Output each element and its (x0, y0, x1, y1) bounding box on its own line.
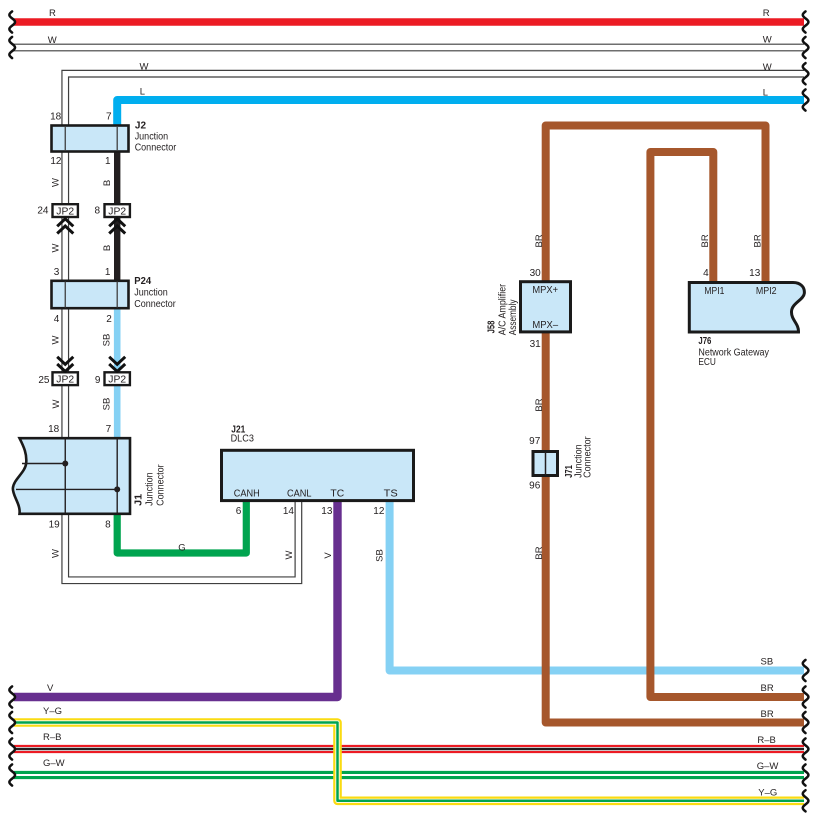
break symbol right of wire R (803, 11, 809, 32)
svg-text:W: W (48, 35, 57, 46)
junction connector J1 (torn left edge) (13, 438, 130, 514)
svg-text:18: 18 (50, 111, 62, 122)
break symbol right of wire BR (lower) (803, 712, 809, 733)
svg-text:R: R (49, 8, 56, 19)
svg-text:B: B (102, 245, 113, 251)
wire BR J76 MPI1 pin 4 to right edge (650, 152, 804, 697)
svg-text:W: W (763, 34, 772, 45)
svg-text:R–B: R–B (757, 735, 775, 746)
svg-text:J1: J1 (134, 493, 145, 505)
svg-text:Junction: Junction (135, 132, 169, 143)
svg-text:31: 31 (530, 339, 542, 350)
svg-text:BR: BR (534, 398, 545, 411)
svg-text:97: 97 (529, 436, 541, 447)
svg-text:JP2: JP2 (56, 206, 74, 217)
svg-text:W: W (51, 399, 62, 408)
wire R-B (red with black stripe) (14, 745, 804, 753)
svg-text:W: W (51, 335, 62, 344)
junction connector J2 (52, 126, 129, 152)
chevron arrows above JP2 25 (pointing down) (57, 357, 73, 372)
svg-text:30: 30 (530, 268, 542, 279)
svg-text:SB: SB (102, 334, 113, 347)
wire W net J2 pin18 to DLC3 CANL (outer line) (62, 70, 804, 583)
svg-text:19: 19 (49, 520, 61, 531)
svg-text:P24: P24 (134, 276, 151, 287)
chevron arrows above JP2 9 (pointing down) (109, 357, 125, 372)
break symbol right of wire L (803, 89, 809, 110)
svg-text:2: 2 (106, 314, 112, 325)
svg-text:J2: J2 (135, 121, 147, 132)
connector JP2 (pin 24) (53, 204, 78, 217)
svg-text:TS: TS (384, 488, 398, 499)
svg-text:12: 12 (50, 156, 62, 167)
svg-text:SB: SB (374, 549, 385, 562)
break symbol right of wire BR (upper) (803, 686, 809, 707)
svg-text:1: 1 (105, 267, 111, 278)
svg-text:B: B (102, 180, 113, 186)
svg-text:J58: J58 (486, 320, 497, 333)
svg-text:96: 96 (529, 481, 541, 492)
wire W (top horizontal, lower line) (14, 50, 805, 52)
svg-text:CANH: CANH (234, 488, 260, 499)
svg-text:MPI2: MPI2 (756, 286, 777, 297)
svg-text:R: R (763, 8, 770, 19)
wire R (red, top) (14, 18, 804, 26)
wire W (top horizontal, upper line) (14, 43, 805, 45)
wire SB DLC3 TS to right edge (390, 502, 804, 671)
svg-text:J76: J76 (698, 336, 711, 347)
break symbol left of wire G-W (9, 764, 15, 785)
svg-text:Junction: Junction (145, 472, 156, 506)
connector JP2 (pin 9) (105, 372, 130, 385)
wire G-W (green with white stripe) (14, 771, 804, 779)
break symbol left of wire Y-G (9, 712, 15, 733)
svg-text:7: 7 (106, 111, 112, 122)
svg-text:7: 7 (106, 424, 112, 435)
wire G (green) J1 pin 8 to DLC3 CANH (117, 502, 246, 553)
connector J21 DLC3 (222, 450, 414, 500)
svg-text:ECU: ECU (698, 357, 716, 368)
wire BR J58 MPX+ pin 30 to J76 MPI2 pin 13 (546, 126, 766, 282)
svg-text:BR: BR (753, 234, 764, 247)
svg-text:R–B: R–B (43, 732, 61, 743)
chevron arrows below JP2 8 (pointing up) (109, 219, 125, 234)
svg-text:25: 25 (38, 375, 50, 386)
svg-text:Connector: Connector (155, 464, 166, 506)
svg-text:6: 6 (236, 506, 242, 517)
svg-text:W: W (51, 243, 62, 252)
svg-text:V: V (323, 552, 334, 559)
svg-text:4: 4 (54, 314, 60, 325)
break symbol right of wire R-B (803, 738, 809, 759)
svg-text:12: 12 (373, 506, 385, 517)
svg-text:G–W: G–W (43, 758, 65, 769)
svg-text:W: W (763, 62, 772, 73)
svg-text:L: L (140, 87, 145, 98)
svg-text:1: 1 (105, 156, 111, 167)
svg-text:W: W (140, 62, 149, 73)
chevron arrows below JP2 24 (pointing up) (57, 219, 73, 234)
svg-text:Connector: Connector (134, 299, 176, 310)
break symbol right of wire G-W (803, 764, 809, 785)
svg-text:MPI1: MPI1 (704, 286, 724, 297)
svg-text:JP2: JP2 (108, 374, 126, 385)
svg-text:13: 13 (321, 506, 333, 517)
svg-text:Connector: Connector (135, 143, 177, 154)
wire SB P24 pin 2 to J1 pin 7 (114, 308, 121, 438)
svg-text:G–W: G–W (757, 761, 779, 772)
svg-text:24: 24 (37, 206, 49, 217)
wire L (blue) to J2 pin 7 (117, 100, 804, 126)
svg-text:DLC3: DLC3 (231, 434, 255, 445)
svg-text:BR: BR (761, 683, 774, 694)
svg-text:4: 4 (703, 268, 709, 279)
svg-text:MPX+: MPX+ (532, 285, 558, 296)
svg-text:BR: BR (534, 234, 545, 247)
junction connector P24 (52, 281, 129, 308)
break symbol left of wire V (9, 686, 15, 707)
break symbol left of wire R (9, 11, 15, 32)
wire W net J2 pin18 to DLC3 CANL (inner line) (69, 77, 804, 577)
svg-text:Junction: Junction (134, 288, 168, 299)
break symbol left of wire W (9, 37, 15, 58)
svg-text:Assembly: Assembly (508, 300, 519, 336)
svg-text:W: W (284, 550, 295, 559)
svg-text:18: 18 (48, 424, 60, 435)
network gateway ECU J76 (torn right edge) (689, 283, 804, 333)
wire B (black) J2 pin 1 to P24 pin 1 (114, 151, 120, 281)
wire BR J58 MPX- pin 31 through J71 to right edge (546, 333, 804, 723)
svg-text:8: 8 (105, 520, 111, 531)
junction connector J71 (533, 452, 558, 476)
svg-text:G: G (178, 542, 185, 553)
svg-text:13: 13 (749, 268, 761, 279)
break symbol right of wire SB (803, 660, 809, 681)
svg-text:Connector: Connector (583, 436, 594, 478)
svg-text:JP2: JP2 (108, 206, 126, 217)
svg-text:CANL: CANL (287, 488, 312, 499)
svg-text:Y–G: Y–G (43, 706, 62, 717)
svg-text:L: L (763, 88, 768, 99)
connector JP2 (pin 8) (105, 204, 130, 217)
svg-text:SB: SB (102, 398, 113, 411)
break symbol right of wire W (upper) (803, 37, 809, 58)
svg-text:W: W (50, 549, 61, 558)
svg-text:Y–G: Y–G (758, 788, 777, 799)
wire V (violet) DLC3 TC to left edge (14, 502, 338, 697)
svg-text:14: 14 (283, 506, 295, 517)
svg-text:BR: BR (700, 234, 711, 247)
svg-text:A/C Amplifier: A/C Amplifier (497, 283, 508, 335)
svg-text:MPX–: MPX– (532, 320, 558, 331)
svg-text:8: 8 (94, 206, 100, 217)
connector JP2 (pin 25) (53, 372, 78, 385)
svg-text:TC: TC (330, 488, 344, 499)
svg-text:BR: BR (534, 546, 545, 559)
break symbol right of wire Y-G (803, 790, 809, 811)
svg-text:9: 9 (95, 375, 101, 386)
break symbol right of wire W (lower) (803, 63, 809, 84)
break symbol left of wire R-B (9, 738, 15, 759)
A/C amplifier J58 (521, 282, 571, 332)
wire Y-G (yellow with green stripe) (14, 723, 804, 801)
svg-text:JP2: JP2 (56, 374, 74, 385)
svg-text:V: V (47, 683, 54, 694)
svg-text:BR: BR (761, 709, 774, 720)
svg-text:SB: SB (761, 657, 774, 668)
svg-text:W: W (51, 178, 62, 187)
svg-text:3: 3 (54, 267, 60, 278)
